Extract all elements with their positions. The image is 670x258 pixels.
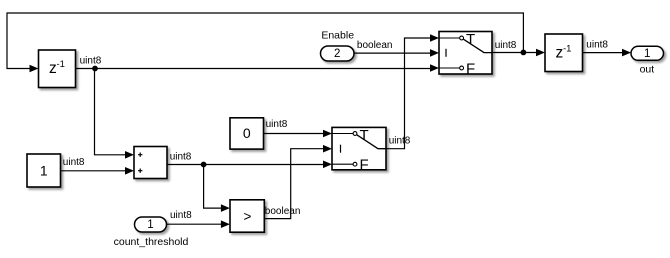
svg-text:>: > bbox=[244, 209, 252, 224]
svg-text:2: 2 bbox=[334, 48, 340, 60]
svg-text:uint8: uint8 bbox=[389, 136, 411, 147]
inport 1 count_threshold oval bbox=[135, 217, 167, 232]
Switch1 control tick bbox=[445, 49, 447, 57]
switch block Switch (lower) bbox=[332, 127, 386, 169]
svg-text:0: 0 bbox=[243, 125, 251, 141]
svg-text:Enable: Enable bbox=[321, 30, 354, 42]
node C junction on Switch1 output bbox=[521, 50, 527, 56]
svg-text:uint8: uint8 bbox=[170, 152, 192, 163]
svg-text:boolean: boolean bbox=[357, 40, 393, 51]
unit delay block (z^-1) Unit Delay1 bbox=[545, 34, 583, 72]
wire Switch1 output to Unit Delay1 input bbox=[492, 52, 537, 54]
svg-text:1: 1 bbox=[40, 163, 48, 179]
sum block Add bbox=[134, 147, 167, 179]
constant block Constant1 value 1 bbox=[27, 154, 61, 187]
svg-text:uint8: uint8 bbox=[495, 40, 517, 51]
svg-text:count_threshold: count_threshold bbox=[114, 236, 189, 248]
wire RelOp output up to Switch control input bbox=[264, 149, 323, 219]
svg-text:-1: -1 bbox=[563, 44, 571, 55]
Switch1 lever diagonal bbox=[463, 39, 492, 52]
svg-text:F: F bbox=[466, 61, 475, 78]
node B junction on Sum output bbox=[201, 162, 207, 168]
svg-text:out: out bbox=[640, 64, 655, 76]
relational operator block > bbox=[230, 200, 264, 232]
svg-text:1: 1 bbox=[644, 48, 650, 60]
Switch F port stub and circle bbox=[332, 163, 353, 165]
wire Unit Delay1 output to out port bbox=[583, 52, 624, 54]
Switch control tick bbox=[340, 145, 342, 153]
Switch lever diagonal bbox=[357, 135, 386, 149]
outport 1 out oval bbox=[631, 46, 664, 60]
wire Sum output to Switch data-F input bbox=[167, 164, 324, 166]
wire count_threshold to RelOp input 2 bbox=[167, 223, 222, 225]
svg-text:F: F bbox=[360, 157, 369, 174]
plus sign input 2 bbox=[138, 169, 142, 173]
wire Constant1 to Sum input 2 bbox=[61, 170, 127, 172]
wire Unit Delay output to Switch1 data-F input bbox=[76, 68, 432, 70]
switch block Switch1 (upper) bbox=[439, 32, 492, 75]
Switch1 F port stub and circle bbox=[439, 67, 460, 69]
constant block Constant value 0 bbox=[230, 118, 264, 149]
wire Enable to Switch1 control input bbox=[354, 52, 431, 54]
svg-text:uint8: uint8 bbox=[80, 56, 102, 67]
wire node B down to RelOp input 1 bbox=[204, 165, 222, 209]
svg-text:boolean: boolean bbox=[265, 206, 301, 217]
svg-text:uint8: uint8 bbox=[586, 39, 608, 50]
svg-text:-1: -1 bbox=[57, 59, 65, 70]
node A junction on Unit Delay output bbox=[92, 66, 98, 72]
svg-text:uint8: uint8 bbox=[63, 157, 85, 168]
wire Constant0 to Switch data-T input bbox=[264, 133, 324, 135]
unit delay block (z^-1) Unit Delay bbox=[39, 50, 76, 88]
plus sign input 1 bbox=[138, 153, 142, 157]
wire Switch output up to Switch1 data-T input bbox=[386, 38, 431, 149]
wire feedback loop from node A to Unit Delay input bbox=[7, 13, 523, 69]
svg-text:uint8: uint8 bbox=[170, 210, 192, 221]
wire node A down to Sum input 1 bbox=[95, 69, 127, 155]
svg-text:1: 1 bbox=[147, 219, 153, 231]
inport 2 Enable oval bbox=[321, 46, 355, 61]
Switch T port stub and circle bbox=[332, 133, 353, 135]
svg-text:uint8: uint8 bbox=[266, 119, 288, 130]
Switch1 T port stub and circle bbox=[439, 37, 460, 39]
